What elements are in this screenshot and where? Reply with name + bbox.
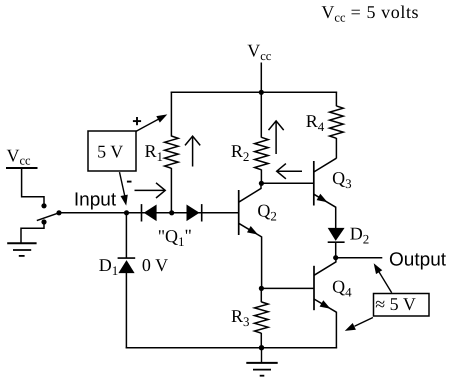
wire Q3 emitter to D2	[335, 207, 337, 229]
transistor Q2	[239, 183, 262, 237]
annotation emitter probe arrow	[345, 318, 373, 331]
annotation current arrow (R2)	[269, 121, 284, 154]
wire Vcc stub	[260, 63, 262, 93]
switch pole	[56, 210, 61, 215]
annotation output probe arrow	[374, 263, 392, 293]
diode D2 (points down)	[328, 228, 345, 242]
wire Input to D1	[125, 213, 127, 259]
ground (input switch)	[7, 243, 36, 256]
wire R4 bottom lead	[335, 138, 337, 158]
diode Q1 base-emitter junction (points left)	[142, 204, 157, 221]
resistor R4	[330, 106, 344, 138]
resistor R1	[165, 136, 179, 168]
svg-text:Output: Output	[389, 250, 447, 271]
wire top Vcc rail	[171, 91, 337, 93]
annotation current arrow (R1)	[185, 136, 200, 166]
node R2/Q2 collector junction	[259, 181, 264, 186]
node Input	[124, 210, 129, 215]
annotation plus sign	[133, 117, 141, 125]
wire R1 bottom lead	[170, 168, 172, 213]
wire Vcc rail to switch contact	[22, 169, 44, 204]
transistor Q3	[314, 158, 337, 207]
wire switch lower contact to ground	[21, 223, 44, 243]
annotation current arrow (input)	[135, 183, 166, 198]
svg-text:Input: Input	[74, 189, 117, 210]
annotation voltmeter approx 5 V box	[374, 294, 430, 317]
wire R4 top lead	[335, 92, 337, 107]
diode Q1 base-collector junction (points right)	[187, 204, 202, 221]
wire R2 top lead	[260, 92, 262, 137]
svg-text:5 V: 5 V	[97, 142, 123, 162]
wire D2 to output node	[335, 242, 337, 258]
annotation voltmeter 5 V box	[88, 131, 136, 171]
node Q1/R1 junction	[169, 210, 174, 215]
wire R3 top lead	[260, 288, 262, 302]
annotation current arrow (Q3 base)	[277, 164, 302, 179]
annotation plus probe arrow	[136, 114, 167, 131]
ground (bottom)	[246, 348, 277, 376]
annotation minus probe arrow	[120, 172, 128, 206]
wire Q4 base line	[261, 287, 314, 289]
wire D1 to ground rail	[125, 273, 127, 349]
transistor Q4	[314, 258, 336, 313]
switch lever	[37, 213, 59, 221]
switch lower contact	[41, 219, 46, 224]
resistor R3	[255, 302, 269, 333]
node Q2 emitter/R3/Q4 base junction	[259, 286, 264, 291]
wire input line	[59, 212, 239, 214]
svg-text:≈ 5 V: ≈ 5 V	[375, 294, 416, 314]
wire R1 top lead	[170, 92, 172, 137]
annotation minus sign	[127, 181, 132, 183]
wire bottom ground rail	[126, 347, 337, 349]
wire Q4 emitter to ground rail	[335, 312, 337, 349]
switch upper contact	[41, 203, 46, 208]
svg-text:0 V: 0 V	[142, 255, 168, 275]
node Vcc/R2 junction	[259, 90, 264, 95]
node ground rail junction	[259, 345, 264, 350]
diode D1 (points up)	[118, 258, 136, 273]
wire output line	[336, 257, 383, 259]
Vcc rail symbol (input switch)	[6, 167, 38, 169]
resistor R2	[255, 137, 269, 170]
wire R2 bottom lead	[260, 170, 262, 184]
wire R3 bottom lead	[260, 333, 262, 348]
svg-text:"Q1": "Q1"	[158, 226, 192, 250]
node output junction	[333, 255, 338, 260]
wire Q2 emitter to R3 node	[261, 236, 263, 288]
wire Q3 base line	[261, 182, 313, 184]
